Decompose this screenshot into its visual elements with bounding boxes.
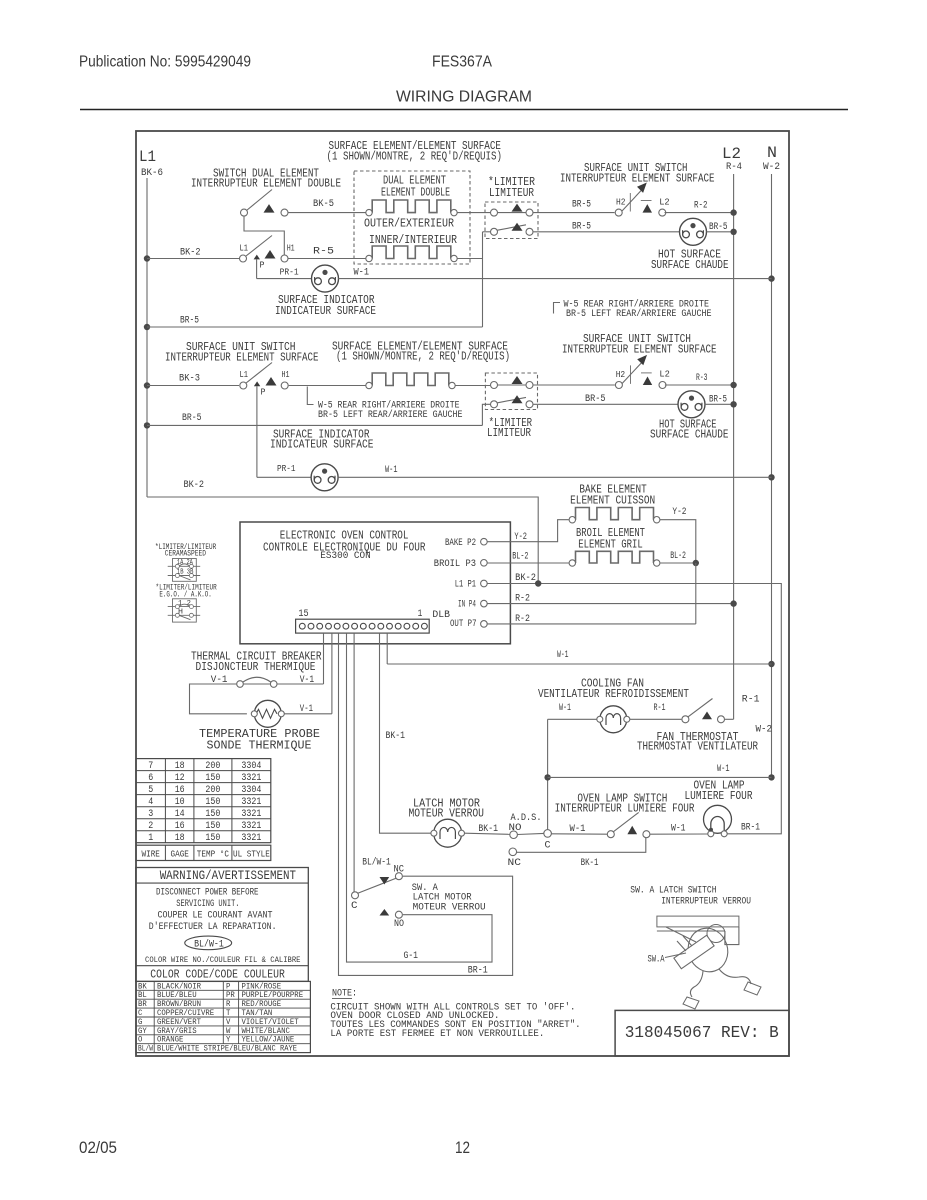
svg-text:(1 SHOWN/MONTRE, 2 REQ'D/REQUI: (1 SHOWN/MONTRE, 2 REQ'D/REQUIS) (327, 150, 503, 164)
SW.A blade (358, 878, 396, 893)
wire gauge table (136, 759, 271, 843)
svg-text:NC: NC (508, 857, 522, 869)
svg-text:W-1: W-1 (557, 649, 569, 661)
wire hot2 to L2 (705, 403, 731, 405)
svg-text:SW.A: SW.A (648, 954, 665, 966)
wire BK-2 to EOC (147, 497, 538, 584)
wire motor to ADS (465, 833, 510, 834)
svg-text:WHITE/BLANC: WHITE/BLANC (242, 1027, 291, 1036)
svg-text:OUTER/EXTERIEUR: OUTER/EXTERIEUR (364, 217, 454, 231)
svg-text:16: 16 (175, 785, 185, 796)
svg-text:P: P (226, 982, 231, 991)
latch switch body drawing (683, 923, 734, 977)
wire R-3 (665, 384, 731, 386)
surface indicator 2 (311, 464, 338, 491)
wire BR-5 row2 (147, 424, 482, 426)
svg-text:LUMIERE FOUR: LUMIERE FOUR (685, 789, 753, 803)
wire BK-5 (289, 212, 366, 214)
wire BR-5 to hot surface 2 (534, 403, 679, 405)
wire pin vertical to SW.A common (353, 633, 355, 891)
callout W-5 rear right row2 (307, 387, 313, 405)
svg-text:OUT P7: OUT P7 (450, 618, 477, 630)
svg-text:R-1: R-1 (742, 694, 760, 706)
svg-text:VENTILATEUR REFROIDISSEMENT: VENTILATEUR REFROIDISSEMENT (538, 687, 689, 701)
svg-text:18: 18 (175, 761, 185, 772)
wire W-1 indicator2 to N (338, 476, 771, 478)
junction L2/R-2 EOC (730, 600, 736, 606)
svg-text:150: 150 (205, 773, 220, 784)
svg-text:DLB: DLB (432, 609, 450, 621)
limiter row1 contact A (498, 212, 526, 214)
svg-text:PR-1: PR-1 (277, 463, 296, 474)
svg-text:L2: L2 (659, 370, 670, 380)
svg-text:PURPLE/POURPRE: PURPLE/POURPRE (242, 991, 304, 1000)
wire L2 vertical bus R-4/R-1 (733, 174, 735, 719)
svg-text:BR-5 LEFT REAR/ARRIERE GAUCHE: BR-5 LEFT REAR/ARRIERE GAUCHE (318, 409, 463, 421)
svg-text:200: 200 (205, 785, 220, 796)
svg-text:ELEMENT GRIL: ELEMENT GRIL (578, 538, 643, 552)
wire BR-5 row1 bottom (147, 326, 483, 328)
svg-text:SONDE THERMIQUE: SONDE THERMIQUE (207, 739, 312, 753)
svg-text:W-1: W-1 (385, 464, 398, 476)
header rule (80, 109, 848, 111)
junction L1/BR-5 row2 (144, 422, 150, 428)
svg-text:BROWN/BRUN: BROWN/BRUN (157, 1000, 201, 1009)
diagram border frame (136, 131, 789, 1056)
svg-text:PINK/ROSE: PINK/ROSE (242, 982, 282, 991)
junction L2/R-2 (730, 209, 736, 215)
wire broil P3 to element (487, 562, 569, 564)
svg-text:Y: Y (226, 1036, 231, 1045)
svg-text:BR-5: BR-5 (585, 393, 606, 405)
junction L2/BR-5 row2 (730, 401, 736, 407)
svg-text:LIMITEUR: LIMITEUR (489, 186, 534, 200)
svg-text:R-3: R-3 (696, 372, 708, 384)
heater element inner (372, 246, 451, 259)
dual element dashed box (354, 171, 470, 264)
svg-text:Y-2: Y-2 (672, 506, 686, 518)
svg-text:02/05: 02/05 (79, 1138, 117, 1157)
svg-text:H2: H2 (616, 198, 626, 208)
svg-text:W-1: W-1 (717, 763, 730, 775)
svg-text:NO: NO (394, 918, 404, 930)
wire H1 to element row2 (289, 385, 366, 387)
junction L1/BK-2 (144, 255, 150, 261)
wire return to OUT P7 (695, 563, 697, 624)
wire pin vertical to breaker (323, 633, 325, 684)
svg-text:BR-5: BR-5 (572, 221, 591, 233)
svg-text:BLACK/NOIR: BLACK/NOIR (157, 982, 201, 991)
svg-text:THERMOSTAT VENTILATEUR: THERMOSTAT VENTILATEUR (637, 740, 758, 754)
limiter ceramaspeed symbol (173, 559, 197, 582)
svg-text:BK-5: BK-5 (313, 198, 334, 210)
junction L2/R-3 (730, 382, 736, 388)
svg-text:SURFACE CHAUDE: SURFACE CHAUDE (650, 428, 729, 442)
wire L1 vertical bus BK-6 (146, 178, 148, 497)
latch switch bracket drawing (657, 916, 739, 927)
wire hot1 to L2 (707, 231, 731, 233)
svg-text:ES300 CON: ES300 CON (320, 550, 370, 562)
wire broil return (660, 562, 693, 564)
wire probe right to pin (284, 713, 332, 715)
wire bake return (660, 520, 696, 560)
svg-text:Publication No: 5995429049: Publication No: 5995429049 (79, 54, 251, 71)
svg-text:GY: GY (138, 1027, 147, 1036)
svg-text:O: O (138, 1036, 143, 1045)
svg-text:PR-1: PR-1 (280, 267, 299, 278)
svg-text:COLOR WIRE NO./COULEUR FIL & C: COLOR WIRE NO./COULEUR FIL & CALIBRE (145, 955, 301, 965)
svg-text:1: 1 (418, 608, 423, 620)
junction W-1 drop (544, 774, 550, 780)
svg-text:YELLOW/JAUNE: YELLOW/JAUNE (242, 1036, 295, 1045)
svg-text:W-1: W-1 (671, 823, 686, 835)
svg-text:CERAMASPEED: CERAMASPEED (165, 550, 206, 559)
svg-text:12: 12 (455, 1138, 470, 1157)
wire pin vertical BK-1 to latch motor (380, 633, 434, 833)
svg-text:TEMP °C: TEMP °C (197, 850, 230, 860)
junction N/W-1 lamp (768, 774, 774, 780)
thermal breaker symbol (243, 683, 270, 685)
svg-text:MOTEUR VERROU: MOTEUR VERROU (409, 807, 485, 821)
svg-text:BR-5: BR-5 (180, 315, 199, 327)
svg-text:12: 12 (175, 773, 185, 784)
color code table (136, 981, 310, 1052)
svg-text:3321: 3321 (241, 797, 261, 808)
switch H2 row2 (615, 382, 622, 389)
wire limiter row2 left link (482, 404, 490, 425)
svg-text:BR-1: BR-1 (468, 965, 488, 977)
svg-text:3321: 3321 (241, 821, 261, 832)
pilot tap P row1 (254, 255, 260, 260)
heater element outer (372, 200, 451, 213)
limiter dashed box row2 (485, 373, 537, 410)
svg-text:BK-1: BK-1 (386, 730, 406, 742)
svg-text:BLUE/WHITE STRIPE/BLEU/BLANC R: BLUE/WHITE STRIPE/BLEU/BLANC RAYE (157, 1045, 297, 1054)
svg-text:ELEMENT CUISSON: ELEMENT CUISSON (570, 494, 655, 508)
svg-text:BROIL P3: BROIL P3 (434, 558, 476, 570)
svg-text:3304: 3304 (241, 761, 261, 772)
svg-text:318045067 REV: B: 318045067 REV: B (625, 1024, 779, 1043)
svg-text:FES367A: FES367A (432, 54, 492, 71)
wire breaker left loop (190, 684, 247, 714)
surface indicator 1 (312, 265, 339, 292)
wire BK-2 row1 (147, 258, 239, 260)
wire pin vertical BR-1 loop (339, 633, 513, 975)
hot surface indicator 1 (680, 218, 707, 245)
svg-text:W: W (226, 1027, 231, 1036)
wire pin vertical to W-1 bus (386, 633, 388, 664)
limiter row1 contact B (498, 225, 527, 230)
svg-text:L2: L2 (659, 197, 670, 207)
svg-text:INTERRUPTEUR ELEMENT SURFACE: INTERRUPTEUR ELEMENT SURFACE (165, 351, 319, 365)
latch switch wires drawing (719, 969, 751, 984)
junction L1/BK-3 (144, 382, 150, 388)
svg-text:COLOR CODE/CODE COULEUR: COLOR CODE/CODE COULEUR (150, 968, 284, 982)
limiter row2 contact B (498, 397, 527, 402)
svg-text:GAGE: GAGE (171, 850, 189, 860)
cooling fan motor symbol (600, 706, 627, 733)
svg-text:LIMITEUR: LIMITEUR (487, 426, 531, 440)
svg-text:R-4: R-4 (726, 161, 742, 173)
svg-text:INNER/INTERIEUR: INNER/INTERIEUR (369, 233, 457, 247)
svg-text:3304: 3304 (241, 785, 261, 796)
oval BL/W-1 (185, 936, 232, 950)
svg-text:3321: 3321 (241, 809, 261, 820)
junction L2/BR-5 (730, 229, 736, 235)
svg-text:UL STYLE: UL STYLE (233, 850, 270, 860)
svg-text:G: G (138, 1018, 143, 1027)
svg-text:BK-3: BK-3 (179, 373, 200, 385)
fan thermostat switch (682, 716, 689, 723)
temperature probe symbol (254, 700, 281, 727)
limiter dashed box row1 (485, 202, 538, 239)
wire BR-5 to hot surface 1 (534, 231, 680, 233)
svg-text:3321: 3321 (241, 833, 261, 844)
svg-text:P: P (261, 388, 266, 398)
svg-text:H1: H1 (287, 243, 295, 253)
SW.A common contact (352, 892, 359, 899)
wire element to limiter row2 (455, 385, 490, 387)
svg-text:C: C (545, 840, 551, 852)
svg-text:INTERRUPTEUR VERROU: INTERRUPTEUR VERROU (661, 896, 751, 908)
wire outer to limiter (457, 212, 490, 214)
svg-text:TAN/TAN: TAN/TAN (242, 1009, 273, 1018)
junction N/W-1 bus (768, 661, 774, 667)
svg-text:3321: 3321 (241, 773, 261, 784)
wire W-1 to fan (548, 718, 600, 720)
svg-text:G-1: G-1 (404, 950, 419, 962)
svg-text:INTERRUPTEUR ELEMENT SURFACE: INTERRUPTEUR ELEMENT SURFACE (562, 343, 717, 357)
wire H1 to inner element (289, 258, 366, 260)
bake element heater (576, 508, 654, 520)
svg-text:H2: H2 (616, 370, 626, 380)
svg-text:BLUE/BLEU: BLUE/BLEU (157, 991, 197, 1000)
svg-text:BL: BL (138, 991, 147, 1000)
svg-text:BR-5 LEFT REAR/ARRIERE GAUCHE: BR-5 LEFT REAR/ARRIERE GAUCHE (566, 308, 712, 320)
wire inner element to vertical (457, 258, 482, 260)
latch motor symbol (434, 819, 462, 847)
svg-text:MOTEUR VERROU: MOTEUR VERROU (413, 902, 486, 914)
svg-text:WIRE: WIRE (142, 850, 160, 860)
wire N vertical bus W-2 (771, 174, 773, 777)
svg-text:VIOLET/VIOLET: VIOLET/VIOLET (242, 1018, 299, 1027)
svg-text:INDICATEUR SURFACE: INDICATEUR SURFACE (275, 304, 376, 318)
svg-text:H1: H1 (282, 370, 290, 380)
svg-text:WIRING DIAGRAM: WIRING DIAGRAM (396, 89, 532, 106)
svg-text:BAKE P2: BAKE P2 (445, 537, 476, 549)
wire R-2 (665, 212, 731, 214)
svg-text:R-2: R-2 (515, 613, 530, 625)
broil element heater (576, 551, 654, 563)
svg-text:C: C (351, 900, 358, 912)
wire P to indicator 2 (257, 476, 311, 478)
svg-text:P: P (260, 261, 265, 271)
limiter EGO/AKO symbol (173, 599, 197, 622)
wire fan to thermostat (630, 718, 682, 720)
svg-text:4: 4 (148, 797, 153, 808)
junction bake/broil return (693, 560, 699, 566)
svg-text:D'EFFECTUER LA REPARATION.: D'EFFECTUER LA REPARATION. (149, 921, 277, 933)
svg-text:R-5: R-5 (313, 246, 334, 258)
svg-text:LA PORTE EST FERMEE ET NON VER: LA PORTE EST FERMEE ET NON VERROUILLEE. (330, 1028, 544, 1040)
svg-text:INDICATEUR SURFACE: INDICATEUR SURFACE (270, 438, 374, 452)
svg-text:N: N (767, 144, 777, 162)
wire L1 P1 BK-2 to lamp return (487, 584, 781, 834)
SW.A NO contact (380, 909, 390, 916)
limiter row2 contact A (498, 384, 526, 386)
wire BK-3 (147, 385, 239, 387)
svg-text:W-2: W-2 (763, 161, 780, 173)
svg-text:BL-2: BL-2 (670, 550, 686, 562)
svg-text:E.G.O. / A.K.O.: E.G.O. / A.K.O. (159, 591, 211, 600)
svg-text:BL/W: BL/W (138, 1045, 153, 1054)
SW.A NC contact (395, 873, 402, 880)
svg-text:T: T (226, 1009, 231, 1018)
svg-text:ELEMENT DOUBLE: ELEMENT DOUBLE (381, 186, 450, 200)
svg-text:ORANGE: ORANGE (157, 1036, 184, 1045)
wire link between poles (244, 216, 284, 255)
svg-text:14: 14 (175, 809, 185, 820)
svg-text:BL/W-1: BL/W-1 (194, 938, 224, 950)
svg-text:BR: BR (138, 1000, 147, 1009)
svg-text:GREEN/VERT: GREEN/VERT (157, 1018, 201, 1027)
warning box (136, 868, 308, 982)
svg-text:BK-6: BK-6 (141, 167, 163, 179)
switch dual element pole1 (247, 190, 273, 211)
electronic oven control box (240, 522, 510, 644)
heater element row2 (372, 373, 449, 386)
wire C to lamp switch (551, 833, 607, 835)
junction BK-2/L1P1 (535, 580, 541, 586)
wire lamp switch to lamp (650, 833, 708, 835)
wire limiter to H2 row2 (534, 384, 615, 386)
svg-text:BR-5: BR-5 (182, 412, 202, 424)
svg-text:RED/ROUGE: RED/ROUGE (242, 1000, 282, 1009)
wire pin vertical G-1 loop (347, 633, 493, 962)
svg-text:BK-2: BK-2 (180, 247, 201, 259)
svg-text:R-2: R-2 (694, 200, 708, 212)
wire W-1 bus (387, 663, 771, 665)
svg-text:W-2: W-2 (756, 724, 773, 736)
svg-text:BK-2: BK-2 (184, 479, 205, 491)
wire breaker right to pin (277, 683, 324, 685)
svg-text:COPPER/CUIVRE: COPPER/CUIVRE (157, 1009, 214, 1018)
svg-text:W-1: W-1 (559, 702, 571, 714)
svg-text:(1 SHOWN/MONTRE, 2 REQ'D/REQUI: (1 SHOWN/MONTRE, 2 REQ'D/REQUIS) (336, 350, 510, 364)
wire P to indicator 1 (257, 278, 312, 280)
svg-text:W-1: W-1 (354, 267, 370, 279)
callout W-5 rear right row1 (554, 303, 561, 314)
junction N/W-1 indicator2 (768, 474, 774, 480)
svg-text:DISJONCTEUR THERMIQUE: DISJONCTEUR THERMIQUE (196, 660, 316, 674)
svg-text:WARNING/AVERTISSEMENT: WARNING/AVERTISSEMENT (160, 868, 296, 883)
svg-text:15: 15 (298, 608, 308, 620)
junction N/W-1 indicator1 (768, 275, 774, 281)
revision box 318045067 REV: B (615, 1010, 789, 1056)
svg-text:150: 150 (205, 833, 220, 844)
svg-text:L1: L1 (240, 370, 249, 380)
svg-text:18: 18 (175, 833, 185, 844)
svg-text:BR-5: BR-5 (572, 199, 591, 211)
junction L1/BR-5 (144, 324, 150, 330)
wire gauge table header (136, 845, 271, 860)
svg-text:BR-1: BR-1 (741, 822, 760, 834)
svg-text:SURFACE CHAUDE: SURFACE CHAUDE (651, 258, 729, 272)
svg-text:C: C (138, 1009, 143, 1018)
svg-text:IN P4: IN P4 (458, 599, 476, 611)
svg-text:BR-5: BR-5 (709, 394, 727, 406)
svg-text:L1 P1: L1 P1 (455, 579, 476, 591)
svg-text:NOTE:: NOTE: (332, 988, 357, 1000)
svg-text:150: 150 (205, 797, 220, 808)
switch L1/H1 row2 (240, 382, 247, 389)
svg-text:COUPER LE COURANT AVANT: COUPER LE COURANT AVANT (158, 911, 273, 922)
svg-text:W-1: W-1 (570, 823, 586, 835)
wire vertical limiter/BR-5 link (482, 232, 484, 327)
switch L1/H1 row1 (240, 255, 247, 262)
svg-text:10: 10 (175, 797, 185, 808)
hot surface indicator 2 (678, 391, 705, 418)
wire W-1 link to N (548, 776, 772, 778)
svg-text:BK-1: BK-1 (581, 857, 599, 869)
wire pin vertical to probe (331, 633, 333, 714)
svg-text:BL-2: BL-2 (512, 551, 528, 563)
svg-text:150: 150 (205, 821, 220, 832)
wire thermostat to L2/R-1 (725, 718, 734, 720)
svg-text:2: 2 (148, 821, 153, 832)
svg-text:150: 150 (205, 809, 220, 820)
svg-text:GRAY/GRIS: GRAY/GRIS (157, 1027, 197, 1036)
svg-text:BL/W-1: BL/W-1 (362, 857, 391, 869)
switch H2 row1 (615, 209, 622, 216)
svg-text:7: 7 (148, 761, 153, 772)
svg-text:1: 1 (148, 833, 153, 844)
svg-text:BR-5: BR-5 (709, 221, 728, 233)
wire BR-5 limiter to H2 (534, 212, 615, 214)
svg-text:R: R (226, 1000, 231, 1009)
svg-text:BK-2: BK-2 (515, 572, 536, 584)
svg-text:3: 3 (148, 809, 153, 820)
svg-text:R-1: R-1 (654, 702, 666, 714)
wire ADS NC to lamp switch (517, 838, 646, 852)
svg-text:INTERRUPTEUR ELEMENT SURFACE: INTERRUPTEUR ELEMENT SURFACE (560, 172, 715, 186)
wire W-1 indicator1 to N (339, 278, 772, 280)
wire bake P2 to element (487, 520, 569, 542)
svg-text:6: 6 (148, 773, 153, 784)
pilot tap P row2 (254, 381, 260, 386)
svg-text:V-1: V-1 (300, 703, 313, 715)
svg-text:V: V (226, 1018, 231, 1027)
svg-text:INTERRUPTEUR LUMIERE FOUR: INTERRUPTEUR LUMIERE FOUR (555, 802, 695, 816)
svg-text:L1: L1 (240, 243, 249, 253)
svg-text:PR: PR (226, 991, 235, 1000)
svg-text:5: 5 (148, 785, 153, 796)
wire fan drop W-1 (547, 719, 549, 829)
wire IN P4 R-2 to L2 (487, 603, 730, 605)
svg-text:INTERRUPTEUR ELEMENT DOUBLE: INTERRUPTEUR ELEMENT DOUBLE (191, 177, 341, 191)
svg-text:DISCONNECT POWER BEFORE: DISCONNECT POWER BEFORE (156, 888, 259, 899)
svg-text:BK: BK (138, 982, 147, 991)
svg-text:Y-2: Y-2 (514, 531, 527, 543)
svg-text:L1: L1 (139, 148, 156, 166)
connector strip (296, 619, 430, 633)
svg-text:R-2: R-2 (515, 593, 530, 605)
svg-text:200: 200 (205, 761, 220, 772)
svg-text:16: 16 (175, 821, 185, 832)
svg-text:SERVICING UNIT.: SERVICING UNIT. (176, 899, 239, 910)
